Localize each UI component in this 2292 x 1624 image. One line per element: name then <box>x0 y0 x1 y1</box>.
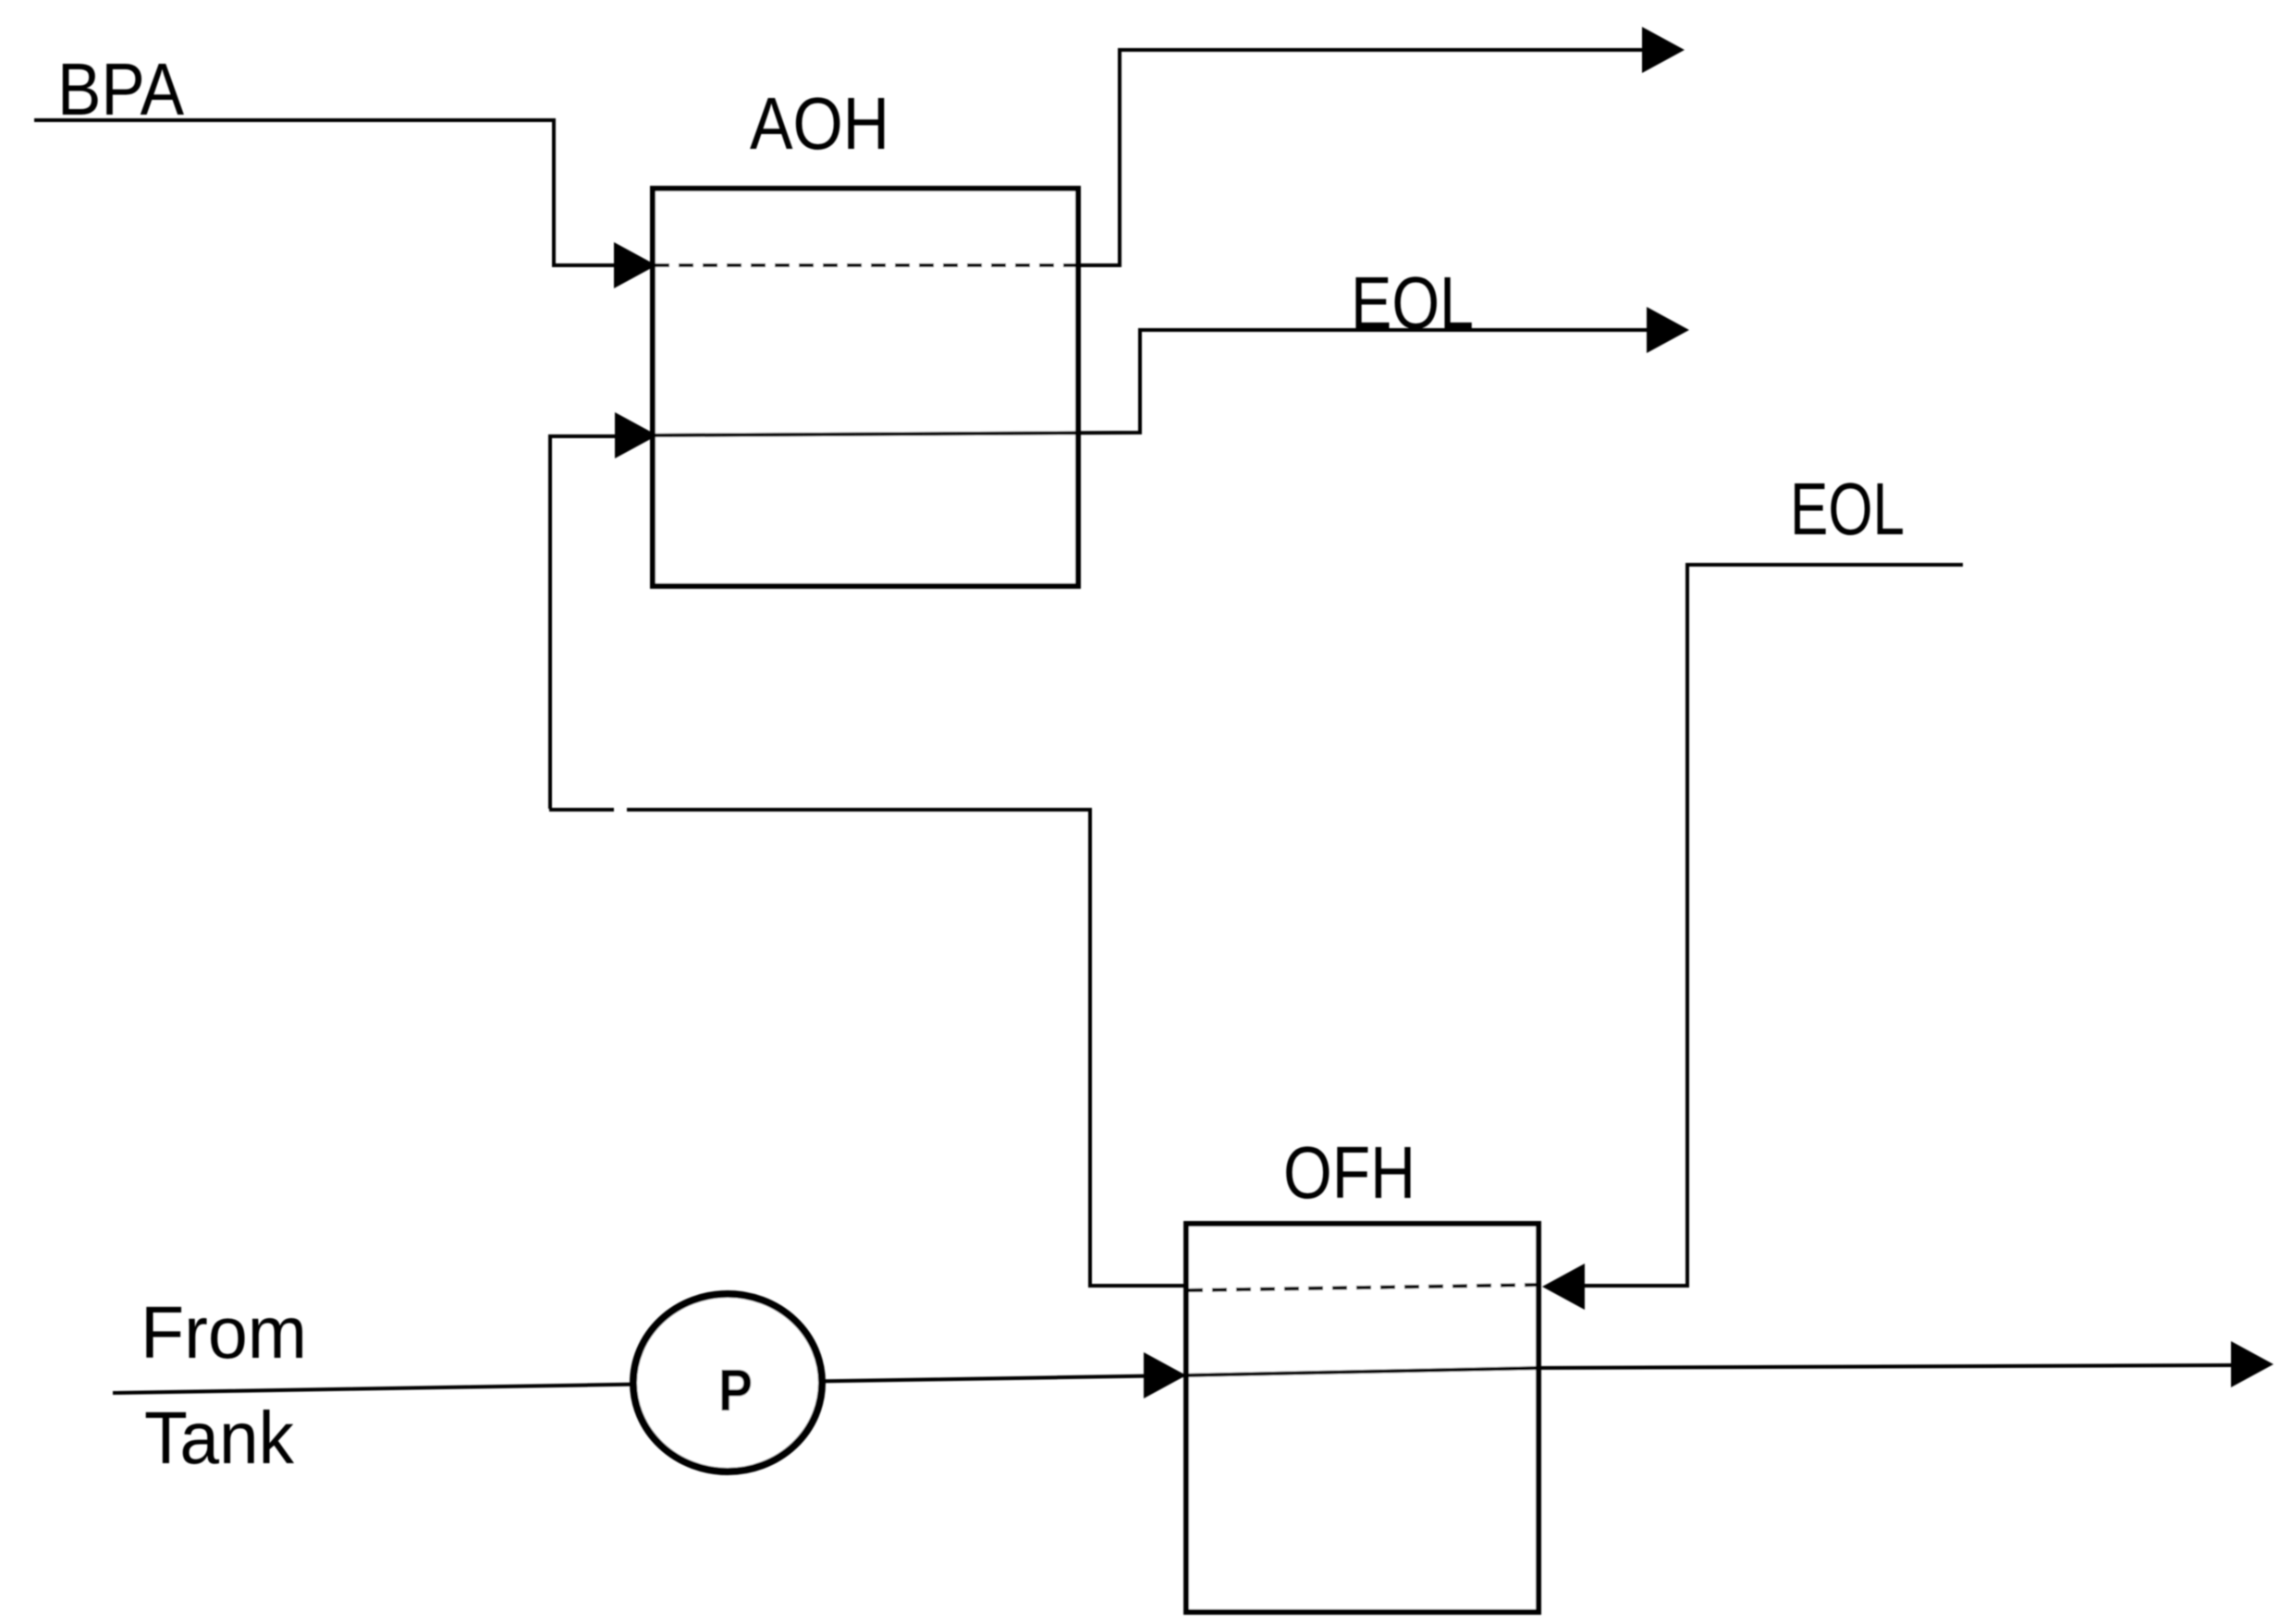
wire recycle horizontal segment (right of gap), down, to OFH left edge <box>627 810 1188 1286</box>
pump P (circle) <box>633 1294 822 1471</box>
svg-text:AOH: AOH <box>750 82 889 165</box>
wire main process line From Tank to right edge <box>113 1365 2231 1393</box>
wire EOL right label line, down, into OFH right side <box>1585 565 1963 1286</box>
svg-text:BPA: BPA <box>57 48 185 130</box>
arrowhead top outlet <box>1642 27 1685 73</box>
svg-text:OFH: OFH <box>1283 1131 1416 1214</box>
arrowhead recycle into AOH <box>615 412 657 458</box>
wire recycle horizontal segment (left of gap) <box>549 808 614 812</box>
vessel OFH (box) <box>1186 1224 1538 1612</box>
svg-text:From: From <box>141 1291 307 1374</box>
wire BPA feed: underline, down, into AOH inlet 1 <box>34 120 616 265</box>
wire AOH liquid line to EOL (middle) <box>655 330 1649 435</box>
dashed line inside OFH <box>1188 1285 1537 1290</box>
wire recycle into AOH inlet 2 <box>550 436 617 809</box>
arrowhead EOL into OFH <box>1542 1264 1585 1310</box>
dashed line inside AOH <box>655 263 1076 267</box>
wire AOH top outlet: right of dashed line, up, right <box>1076 50 1644 265</box>
arrowhead main line into OFH <box>1144 1352 1186 1398</box>
arrowhead EOL middle <box>1647 307 1689 353</box>
vessel AOH (box) <box>653 189 1078 586</box>
svg-text:EOL: EOL <box>1790 468 1905 550</box>
arrowhead main line right end <box>2231 1341 2274 1387</box>
svg-text:Tank: Tank <box>144 1397 295 1479</box>
svg-text:P: P <box>718 1357 753 1423</box>
arrowhead BPA into AOH <box>614 242 656 288</box>
